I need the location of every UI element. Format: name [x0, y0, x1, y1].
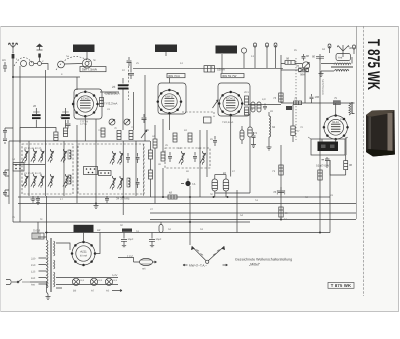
scale lamp label box (dark) 3 — [216, 46, 238, 54]
jack socket 1 — [254, 43, 257, 54]
svg-text:150: 150 — [31, 264, 36, 267]
cap C32 — [213, 136, 217, 146]
phono jack TA — [181, 179, 196, 187]
power transformer TR-P — [47, 238, 55, 292]
svg-text:Si 0,8: Si 0,8 — [33, 229, 41, 233]
electrolytic C52 — [66, 120, 71, 129]
svg-text:75: 75 — [334, 96, 338, 100]
riser from jack3 — [275, 54, 277, 68]
antenna A — [8, 43, 17, 59]
tube U2 EBF11 — [157, 89, 183, 115]
electrolytic cap C51 — [149, 233, 162, 247]
wave switch caption — [183, 264, 228, 268]
svg-text:4,8: 4,8 — [262, 98, 266, 101]
title column divider line — [356, 26, 358, 219]
capacitor C46 on riser x281 — [273, 187, 285, 196]
IF filter box F1 on anode bus — [204, 66, 225, 72]
dial cord dashed arc right — [56, 57, 90, 70]
pot P3 — [124, 119, 130, 125]
wire tube4 plate — [335, 103, 337, 116]
svg-text:B6: B6 — [73, 290, 77, 293]
screen resistor R2b — [245, 107, 249, 115]
svg-text:AZ11: AZ11 — [80, 249, 87, 253]
dashed screen line — [143, 144, 145, 196]
trimmer 41 — [48, 174, 54, 188]
IF can pill L16 — [215, 174, 226, 176]
band filter dashed box BF1 — [22, 144, 73, 194]
wire from lamp box3 down — [221, 54, 223, 73]
junction dot b — [122, 196, 124, 198]
sheet top border — [0, 26, 399, 28]
coil L5 row1 right — [68, 150, 71, 159]
trimmer T12 — [179, 151, 185, 165]
riser x281 — [280, 145, 282, 220]
svg-text:An: An — [2, 58, 6, 62]
arrow heater out — [112, 290, 122, 292]
wire net w7 — [76, 125, 78, 203]
wire net w3 — [8, 141, 10, 204]
riser from jack1 — [254, 54, 256, 68]
svg-text:Gezeichnete Wellenschalterstel: Gezeichnete Wellenschalterstellung — [235, 258, 292, 262]
svg-text:98K: 98K — [300, 73, 305, 77]
trimmer 4a — [38, 149, 44, 163]
grid bus wire y77 — [13, 76, 74, 78]
capacitor C12 — [127, 57, 132, 66]
resistor R22 — [273, 93, 283, 102]
antenna coil secondary — [335, 70, 349, 72]
wave switch contact strip S2 — [84, 167, 98, 175]
svg-text:80: 80 — [312, 55, 316, 59]
ground G5 — [251, 142, 256, 148]
svg-text:90: 90 — [349, 163, 353, 167]
osc trimmer T7 — [117, 151, 123, 165]
tube U3 ECH11 — [218, 91, 244, 117]
wire net w6 — [63, 141, 65, 196]
riser x145 — [144, 75, 146, 141]
heater bus 2 — [56, 284, 118, 286]
capacitor C43 — [310, 94, 320, 103]
drive drum hub — [85, 62, 89, 66]
resistor R32 — [129, 131, 133, 140]
tube U1 ECH11 — [72, 91, 99, 118]
wire net w9 — [122, 141, 124, 215]
svg-text:T9/0,4mA: T9/0,4mA — [222, 121, 234, 124]
svg-text:NETZTEILER: NETZTEILER — [321, 79, 324, 95]
dashed if box — [165, 148, 210, 168]
dashed shield line x296 — [295, 58, 297, 140]
svg-text:175°: 175° — [127, 255, 134, 259]
svg-text:A2: A2 — [97, 228, 101, 232]
terminal hook TR2 — [353, 45, 356, 54]
svg-text:86: 86 — [306, 54, 310, 58]
antenna lead wire — [12, 52, 14, 77]
bus B+ y213 — [150, 212, 356, 214]
svg-text:BW 7mA: BW 7mA — [169, 74, 180, 78]
left margin capacitor C3 — [3, 190, 9, 196]
capacitor C13 — [142, 114, 147, 123]
shield can U3 — [218, 83, 250, 116]
wire tube4 to speaker — [322, 139, 336, 142]
ground G2 — [94, 203, 99, 209]
svg-text:70: 70 — [296, 64, 300, 68]
tuning gang pulley — [58, 61, 65, 68]
mains plug — [6, 280, 18, 285]
wire net w11 — [150, 141, 152, 197]
resistor R11 — [161, 152, 165, 161]
riser x207 — [206, 130, 208, 177]
IF can pill L17 — [223, 175, 229, 198]
wave switch contact strip S1 — [13, 163, 24, 172]
shield can U1 — [74, 89, 102, 119]
riser x255 — [249, 112, 251, 193]
wire af2 — [281, 69, 299, 71]
svg-text:Ant: Ant — [338, 56, 342, 60]
lamp box1 riser — [86, 52, 88, 59]
switch arrow SW3 — [213, 100, 219, 108]
resistor R10 — [153, 139, 157, 148]
tube U4 EL11 output — [323, 114, 349, 140]
svg-text:A3: A3 — [250, 108, 254, 111]
svg-text:21 16 4b 41 26: 21 16 4b 41 26 — [24, 172, 42, 175]
svg-text:T 875 WK: T 875 WK — [331, 283, 351, 288]
jack socket 3 — [274, 43, 277, 54]
wire speaker down — [327, 155, 346, 175]
field coil cap C45 — [322, 157, 330, 163]
resistor R27 on riser x281 — [272, 165, 283, 175]
wire net w10 — [135, 141, 137, 196]
svg-text:k6: k6 — [223, 171, 226, 175]
title column inner divider — [363, 26, 365, 296]
dial lamp LP3 — [105, 278, 117, 292]
fuse box Si — [32, 229, 44, 240]
wire field coil box feeds — [78, 231, 89, 233]
resistor R21 with X — [299, 68, 309, 77]
output transformer TR-OUT — [349, 102, 355, 115]
shield can U2 — [158, 83, 186, 114]
riser x330 — [329, 160, 331, 233]
pill resistor RP1 — [251, 102, 255, 112]
bypass cap C25 — [105, 196, 109, 203]
coil L6 row2 right — [68, 175, 71, 184]
trimmer row 2 — [22, 174, 68, 188]
riser x320 — [319, 57, 321, 233]
trimmer 26 — [63, 174, 69, 188]
tube label plate U3 — [221, 74, 244, 79]
screen resistor R2 — [245, 96, 249, 105]
AGC box — [204, 117, 212, 123]
wave switch contact strip S3 — [99, 171, 112, 176]
loop antenna label box — [336, 54, 351, 61]
resistor R30 — [101, 128, 105, 137]
wire to thermo fuse — [118, 258, 134, 263]
wire net w4 — [28, 141, 30, 196]
trimmer 15 — [31, 149, 37, 163]
svg-text:2R1: 2R1 — [244, 91, 249, 94]
capacitor C41 on riser — [312, 54, 324, 60]
svg-text:5W 7,5mA: 5W 7,5mA — [82, 68, 98, 72]
svg-text:ECH11: ECH11 — [226, 96, 235, 100]
svg-text:40: 40 — [349, 46, 353, 50]
dial lamp LP2 — [90, 278, 102, 292]
dial lamp LP1 — [72, 278, 84, 292]
earth terminal circle — [38, 62, 42, 66]
pickup jack circle — [241, 48, 246, 53]
volume pot P1 — [296, 62, 310, 69]
tube label plate U1 — [80, 67, 106, 72]
tiny value labels layer — [12, 48, 343, 233]
osc trimmer T6 — [110, 151, 116, 165]
svg-text:4BV/7mA: 4BV/7mA — [104, 92, 117, 96]
ground G6 — [267, 147, 272, 150]
trimmer row 1 — [22, 149, 66, 163]
svg-text:MW·∅–T.A.–: MW·∅–T.A.– — [189, 264, 207, 268]
resistor R28 on riser x281 — [279, 207, 289, 217]
svg-text:20: 20 — [33, 104, 37, 108]
left margin capacitor C2 — [3, 170, 9, 176]
speaker cone lines — [308, 137, 348, 139]
svg-text:52mA: 52mA — [217, 68, 225, 72]
svg-text:BW 59 7W: BW 59 7W — [223, 74, 237, 78]
tube U5 AZ11 rectifier — [71, 241, 97, 267]
capacitor C40 — [302, 54, 310, 61]
svg-text:220: 220 — [31, 257, 36, 260]
padder C22 — [136, 178, 140, 188]
tube label plate U2 — [167, 74, 185, 79]
wire label to cap — [100, 92, 134, 130]
earth E symbol — [37, 44, 43, 61]
junction dot e — [189, 221, 191, 223]
riser from pickup — [243, 53, 245, 68]
resistor R34 — [54, 132, 58, 141]
resistor R25 on riser — [291, 126, 300, 136]
af bus y103 — [248, 103, 352, 105]
transformer tap stubs — [31, 257, 47, 286]
drive shaft wire — [64, 63, 82, 66]
left margin capacitor C1 — [2, 58, 7, 72]
capacitor C23 block (dark plates) — [112, 78, 128, 130]
dial cord dashed arc left — [14, 57, 33, 66]
osc coil L8 — [127, 178, 130, 187]
coupling box C42 — [286, 106, 292, 110]
mains switch — [17, 279, 46, 292]
grid resistor R1 — [100, 98, 104, 107]
riser x155 — [154, 125, 156, 204]
terminal hook TR1 — [328, 44, 331, 53]
pot P2 — [109, 119, 115, 125]
bottom right part number box T 875 WK — [328, 283, 354, 289]
node tube1 feed — [74, 77, 80, 90]
svg-text:04: 04 — [272, 125, 276, 129]
svg-text:110: 110 — [31, 277, 36, 280]
svg-text:H+: H+ — [285, 211, 289, 215]
coupling capacitor C10 on bus — [128, 62, 134, 79]
svg-text:71: 71 — [272, 169, 276, 173]
tube4 cathode riser — [345, 137, 347, 155]
wire rf mid rail — [13, 164, 45, 166]
jack socket 2 — [266, 43, 269, 54]
bus heater y227 — [13, 221, 250, 223]
svg-text:6,3V: 6,3V — [112, 274, 118, 277]
ground G3 — [319, 71, 324, 77]
transformer to ground wire — [47, 292, 49, 294]
antenna coil core — [331, 66, 353, 67]
trimmer 16 — [31, 174, 37, 188]
transformer top wire — [38, 196, 47, 240]
trimmer 40 — [48, 149, 54, 163]
junction dot c — [95, 203, 97, 205]
trimmer 4b — [38, 174, 44, 188]
svg-text:125: 125 — [31, 270, 36, 273]
svg-text:„Mittel“: „Mittel“ — [249, 263, 261, 267]
wire antenna down-lead long — [12, 58, 14, 222]
rectifier heater wires — [56, 233, 100, 289]
cap C30 — [168, 152, 172, 162]
wire antenna to coupler — [34, 64, 48, 71]
svg-text:16µF: 16µF — [128, 238, 134, 241]
svg-text:40 mA: 40 mA — [80, 254, 88, 257]
magnet label patches — [321, 145, 326, 149]
wire af3 — [280, 55, 282, 103]
sheet bottom border — [0, 311, 399, 313]
resistor R24 striped dark — [333, 96, 340, 105]
wire from lamp box2 down — [165, 52, 167, 56]
wire af1 — [281, 63, 302, 65]
dashed AVC link — [182, 112, 214, 117]
tube1 cathode drop wires — [84, 116, 86, 141]
svg-text:T 875 WK: T 875 WK — [364, 39, 383, 90]
scale lamp label box (dark) 1 — [73, 45, 95, 53]
riser x190 — [189, 186, 191, 245]
tube U2 feed wire — [168, 78, 170, 83]
bus ground y203.5 — [18, 203, 356, 205]
bus output y220 — [150, 219, 356, 221]
bus B+ main y232.5 — [45, 232, 330, 234]
svg-text:EBF11: EBF11 — [165, 94, 174, 98]
svg-text:100: 100 — [315, 95, 320, 99]
resistor R13 — [188, 133, 192, 142]
pill resistor RP4 — [240, 126, 244, 144]
electrolytic cap C50 — [121, 233, 134, 247]
wave switch symbol — [191, 247, 224, 264]
svg-text:78: 78 — [273, 190, 277, 194]
svg-text:98: 98 — [286, 57, 290, 61]
resistor R6 column — [149, 170, 153, 179]
choke on B+ bus (dark) — [122, 229, 132, 232]
svg-text:Ant: Ant — [31, 283, 35, 286]
bus AVC y197 — [18, 196, 330, 198]
riser x237 — [236, 190, 238, 233]
svg-text:16µF: 16µF — [156, 238, 162, 241]
bypass cap C24 — [36, 196, 40, 204]
radio cabinet photo — [366, 110, 395, 157]
svg-text:TY/2,2mA: TY/2,2mA — [104, 102, 117, 106]
wire top of rf block — [9, 140, 150, 142]
svg-text:EL11: EL11 — [333, 120, 340, 124]
pill resistor RP2 — [257, 102, 261, 112]
svg-text:20 15 4a 40 25: 20 15 4a 40 25 — [24, 147, 42, 150]
wire coil to riser — [321, 57, 352, 71]
osc coil L20 vertical — [269, 112, 276, 147]
tube2 bottom riser — [168, 113, 170, 130]
svg-text:72: 72 — [254, 131, 258, 135]
resistor R5 column — [149, 150, 153, 159]
wire net w2 — [19, 66, 21, 222]
svg-text:73: 73 — [273, 96, 277, 100]
riser x163 — [162, 119, 164, 197]
antenna A2 top right — [337, 45, 352, 57]
svg-text:A5: A5 — [106, 290, 110, 293]
thermo fuse — [134, 258, 157, 270]
resistor R20 — [285, 57, 295, 65]
IF can pill L15 — [212, 175, 218, 198]
osc trimmer T9 — [117, 176, 123, 190]
svg-text:T/7?A: T/7?A — [80, 123, 87, 126]
resistor R35 — [63, 128, 67, 137]
svg-text:ECH11: ECH11 — [81, 97, 90, 101]
osc trimmer T8 — [110, 176, 116, 190]
tuning pulley small — [21, 61, 27, 67]
scale lamp label box (dark) 2 — [155, 45, 177, 53]
ground G4 — [46, 294, 51, 300]
switch arrow SW2 — [141, 130, 147, 138]
junction dot a — [12, 76, 14, 78]
svg-text:23: 23 — [112, 85, 116, 89]
trimmer 21 — [22, 174, 28, 188]
junction dot d — [46, 232, 48, 234]
resistor R29 on riser x320 — [318, 170, 322, 180]
pill resistor RP3 — [248, 127, 258, 137]
pot riser x305 — [304, 69, 306, 103]
cap C44 — [263, 104, 267, 111]
svg-text:A7: A7 — [91, 290, 95, 293]
wire net w5 — [45, 70, 47, 196]
cathode resistor R26 — [344, 161, 353, 170]
trimmer 20 — [22, 149, 28, 163]
resistor R23 horizontal — [294, 97, 302, 105]
svg-text:77: 77 — [297, 129, 301, 133]
IF can pill L18 — [215, 192, 250, 194]
trimmer T13 — [200, 151, 206, 165]
field coil label box (dark) — [74, 225, 94, 232]
sheet left border — [0, 26, 2, 312]
drive drum — [82, 59, 91, 68]
padder C21 — [136, 153, 140, 163]
trimmer 25 — [61, 149, 67, 163]
cap C31 — [193, 152, 197, 162]
riser x200 — [199, 130, 201, 197]
resistor R31 — [117, 131, 121, 140]
padder capacitor 20 (dark plates) — [32, 104, 41, 128]
left margin capacitor C4 — [3, 128, 13, 136]
padder capacitor 21 (dark plates) — [61, 108, 70, 128]
anode bus y68 — [133, 67, 283, 69]
resistor R14 horizontal — [168, 191, 177, 200]
pill resistor R33 on bus riser — [159, 222, 163, 233]
resistor R12 — [173, 133, 177, 142]
riser from jack2 — [266, 54, 268, 68]
dashed agc line — [128, 66, 130, 100]
sheet right border — [398, 26, 400, 312]
tuning pulley 2 — [29, 61, 34, 66]
antenna coil primary — [334, 63, 351, 65]
wire net w8 — [95, 119, 97, 203]
heater bus 1 — [56, 277, 118, 279]
band filter dashed box BF2 — [78, 144, 144, 194]
loudspeaker frame — [311, 139, 345, 155]
junction dots bus — [162, 196, 321, 234]
left margin capacitor C5 — [3, 136, 7, 144]
svg-text:TA: TA — [192, 182, 196, 186]
